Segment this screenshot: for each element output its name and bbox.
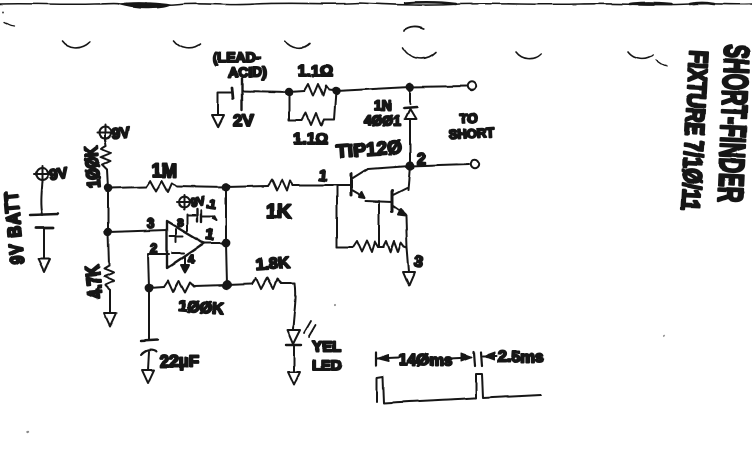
wire output rail vertical bbox=[226, 187, 227, 285]
resistor 100K (feedback) bbox=[149, 281, 227, 292]
punch hole arc 6 bbox=[628, 52, 653, 59]
svg-text:2V: 2V bbox=[233, 111, 254, 130]
junction node B bbox=[333, 88, 339, 94]
capacitor 22uF bbox=[141, 340, 158, 370]
ground (4.7K) bbox=[104, 313, 116, 326]
wire emitter to ground bbox=[407, 247, 409, 272]
faint scan speck 2 bbox=[334, 304, 336, 306]
svg-text:(LEAD-: (LEAD- bbox=[213, 49, 261, 65]
wire middle vertical bbox=[378, 201, 380, 247]
svg-text:3: 3 bbox=[413, 253, 424, 271]
dimension line 140ms bbox=[376, 352, 475, 366]
op-amp pin 8 wire bbox=[186, 214, 188, 231]
wire Q2 emitter down bbox=[406, 217, 407, 247]
wire op-amp pin 2 bbox=[148, 254, 169, 288]
ground (2V battery) bbox=[212, 115, 224, 127]
junction node A bbox=[286, 89, 292, 95]
op-amp pin 4 wire bbox=[184, 257, 186, 265]
junction node (100K / 1.8K) bbox=[223, 281, 230, 288]
wire 100K node down bbox=[107, 188, 109, 232]
punch hole arc 1 bbox=[62, 41, 90, 48]
svg-text:4ØØ1: 4ØØ1 bbox=[364, 112, 402, 128]
resistor internal R1 (base-emitter Q1) bbox=[337, 241, 379, 252]
resistor 1.8K bbox=[227, 278, 295, 289]
ground (TIP120 emitter) bbox=[403, 272, 415, 286]
ground (LED) bbox=[288, 372, 300, 385]
svg-text:1ØØK: 1ØØK bbox=[81, 145, 105, 189]
battery B2 2V (lead-acid) bbox=[218, 78, 242, 115]
torn paper edge bbox=[0, 2, 752, 8]
svg-text:1.8K: 1.8K bbox=[255, 255, 290, 274]
svg-text:LED: LED bbox=[312, 357, 342, 374]
resistor 1K bbox=[268, 180, 293, 191]
wire 1K to TIP120 base bbox=[293, 184, 330, 186]
label TO SHORT bbox=[448, 110, 494, 142]
diode 1N4001 bbox=[404, 87, 417, 166]
svg-text:8: 8 bbox=[177, 217, 183, 229]
wire op-amp pin 3 input bbox=[108, 230, 167, 232]
stray mark top-left bbox=[4, 22, 14, 26]
faint scan speck 1 bbox=[27, 431, 29, 433]
resistor internal R2 (base-emitter Q2) bbox=[379, 241, 407, 252]
label - input bbox=[172, 252, 184, 254]
svg-text:4: 4 bbox=[188, 252, 195, 266]
wire battery to node A bbox=[242, 91, 289, 92]
svg-text:TIP12Ø: TIP12Ø bbox=[336, 137, 403, 163]
svg-text:SHORT-FINDER: SHORT-FINDER bbox=[710, 44, 752, 204]
terminal (TO SHORT -) bbox=[471, 160, 479, 168]
op-amp U1 bbox=[167, 221, 204, 268]
svg-text:.1: .1 bbox=[206, 196, 218, 211]
punch hole arc 4 bbox=[403, 27, 436, 58]
junction node (pin2 / 100K / 22uF) bbox=[146, 285, 153, 292]
svg-text:1: 1 bbox=[318, 167, 328, 185]
junction node (output) bbox=[223, 240, 230, 247]
label 1N 4001 bbox=[364, 97, 402, 128]
svg-text:ACID): ACID) bbox=[228, 64, 267, 80]
wire rail to diode node bbox=[336, 87, 410, 91]
svg-text:9V BATT: 9V BATT bbox=[0, 190, 28, 265]
label (LEAD-ACID) bbox=[213, 49, 267, 80]
svg-text:9V: 9V bbox=[189, 194, 206, 210]
svg-text:9V: 9V bbox=[110, 124, 131, 143]
power symbol +9V (battery flag) bbox=[34, 166, 50, 182]
wire node to 1K bbox=[226, 186, 268, 187]
svg-text:1.1Ω: 1.1Ω bbox=[293, 131, 328, 148]
svg-text:2: 2 bbox=[150, 240, 158, 256]
dimension line 2.5ms bbox=[481, 352, 497, 366]
resistor 1.1 ohm (bottom) bbox=[302, 113, 324, 125]
svg-text:YEL: YEL bbox=[312, 338, 341, 355]
transistor Q1 (TIP120 input section) bbox=[330, 169, 368, 198]
svg-text:SHORT: SHORT bbox=[448, 125, 494, 142]
junction node (pin 3 tap) bbox=[105, 229, 111, 235]
svg-text:1ØØK: 1ØØK bbox=[178, 298, 225, 318]
battery B1 9V plates bbox=[30, 214, 58, 259]
svg-text:3: 3 bbox=[147, 215, 155, 231]
terminal (TO SHORT +) bbox=[468, 82, 476, 90]
ground (op-amp pin 4, small arrow) bbox=[181, 265, 189, 272]
wire parallel loop bbox=[289, 91, 336, 120]
power symbol +9V (op-amp) bbox=[177, 195, 191, 209]
capacitor 0.1uF bypass bbox=[187, 209, 216, 222]
stray dot top-left bbox=[2, 11, 4, 13]
punch hole arc 3 bbox=[285, 41, 310, 48]
wire node C to terminal bbox=[410, 86, 467, 87]
junction node 2 (collector rail) bbox=[406, 162, 413, 169]
svg-text:4.7K: 4.7K bbox=[81, 264, 106, 300]
stray pen mark near FIXTURE bbox=[656, 60, 667, 66]
transistor Q2 (TIP120 output section) bbox=[392, 188, 407, 216]
wire Q1 collector to node 2 bbox=[368, 166, 410, 169]
svg-text:1: 1 bbox=[205, 226, 215, 244]
svg-text:1M: 1M bbox=[152, 161, 177, 181]
svg-text:9V: 9V bbox=[48, 165, 69, 184]
svg-text:14Øms: 14Øms bbox=[399, 352, 452, 369]
resistor 4.7K bbox=[104, 232, 114, 313]
faint scan speck 3 bbox=[663, 335, 665, 337]
wire battery + lead bbox=[41, 181, 42, 215]
punch hole arc 5 bbox=[516, 52, 541, 59]
punch hole arc 2 bbox=[174, 41, 200, 48]
LED D2 (yellow) bbox=[286, 321, 316, 345]
svg-text:1N: 1N bbox=[374, 97, 392, 113]
svg-text:22µF: 22µF bbox=[160, 352, 199, 371]
wire op-amp output bbox=[204, 242, 226, 244]
junction node (1M / 1K / output rail) bbox=[223, 184, 230, 191]
wire Q1 emitter to Q2 base bbox=[366, 201, 392, 202]
svg-text:2.5ms: 2.5ms bbox=[498, 349, 543, 366]
wire node 2 to terminal bbox=[410, 164, 469, 166]
svg-text:FIXTURE 7/1Ø/11: FIXTURE 7/1Ø/11 bbox=[676, 50, 713, 211]
svg-text:1.1Ω: 1.1Ω bbox=[298, 63, 333, 80]
resistor 1M bbox=[146, 181, 176, 192]
wire collector vertical (node2 down) bbox=[408, 166, 410, 190]
label YEL LED bbox=[312, 338, 342, 374]
resistor 1.1 ohm (top) bbox=[289, 84, 336, 96]
ground (22uF) bbox=[142, 370, 154, 383]
wire 1M to node bbox=[176, 186, 226, 187]
junction node C (diode cathode) bbox=[407, 84, 414, 91]
waveform pulses bbox=[377, 374, 541, 403]
wire internal base line bbox=[336, 185, 338, 247]
svg-text:2: 2 bbox=[417, 151, 426, 168]
power symbol +9V (100K pull-up) bbox=[97, 125, 113, 141]
wire rail node to 1M bbox=[108, 187, 146, 188]
label + input bbox=[170, 229, 183, 242]
wire LED anode bbox=[293, 283, 296, 329]
wire LED cathode bbox=[293, 346, 295, 372]
resistor 100K (pull-up, vertical) bbox=[101, 139, 111, 188]
ground (9V battery) bbox=[38, 259, 50, 272]
junction node (100K / 1M rail) bbox=[105, 185, 111, 191]
wire 22uF top bbox=[148, 288, 150, 340]
svg-text:1K: 1K bbox=[266, 201, 292, 223]
svg-text:TO: TO bbox=[459, 110, 478, 126]
